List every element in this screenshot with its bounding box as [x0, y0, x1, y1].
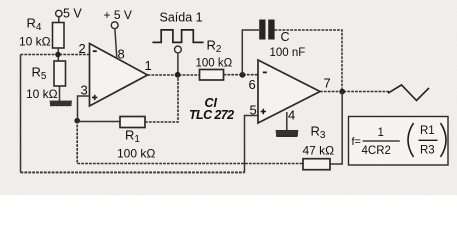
svg-text:100 nF: 100 nF — [270, 47, 306, 59]
square wave symbol — [152, 30, 203, 43]
node: output/C/R3 junction — [339, 89, 345, 95]
wire: 5V to R4 — [58, 17, 60, 23]
wire: U1a output — [148, 74, 200, 76]
wire: +5V to pin 8 — [115, 29, 117, 58]
wire: Saida terminal drop — [177, 53, 179, 72]
wire: C to output riser — [275, 30, 342, 92]
svg-text:R1: R1 — [420, 125, 435, 137]
svg-text:f=: f= — [352, 136, 361, 148]
wire: pin 3 lead — [78, 96, 90, 121]
wire: pin 4 down — [286, 112, 288, 131]
plus sign U1b — [261, 109, 266, 114]
wire: U1b output to triangle symbol — [320, 91, 390, 93]
svg-text:4CR2: 4CR2 — [362, 145, 391, 157]
resistor R3 — [303, 159, 330, 170]
wire: left rail vertical — [20, 55, 22, 173]
svg-text:+ 5 V: + 5 V — [104, 8, 132, 22]
wire: bottom rail to pin 5 — [21, 171, 245, 173]
wire: R4 to node — [57, 48, 59, 61]
formula box — [349, 117, 449, 166]
wire: R5 to ground — [59, 86, 61, 101]
capacitor C feedback: left riser — [242, 30, 259, 75]
capacitor C plates — [259, 20, 265, 40]
svg-text:1: 1 — [145, 58, 152, 73]
wire: R1 to output vertical — [145, 75, 178, 122]
wire: node to R1 — [77, 121, 120, 123]
wire: R2 to pin 6 — [224, 74, 259, 76]
ground (below R5) — [50, 101, 73, 107]
op-amp U1b — [258, 60, 320, 123]
svg-text:2: 2 — [79, 41, 86, 56]
node: pin6 junction — [240, 72, 246, 78]
svg-text:8: 8 — [118, 47, 125, 62]
svg-text:10 kΩ: 10 kΩ — [26, 87, 58, 101]
node: R4/R5 junction — [55, 52, 61, 58]
plus sign U1a — [92, 95, 97, 100]
terminal 5V left — [56, 10, 62, 16]
svg-text:100 kΩ: 100 kΩ — [117, 147, 155, 161]
svg-text:7: 7 — [324, 76, 331, 91]
svg-text:47 kΩ: 47 kΩ — [303, 144, 335, 158]
svg-text:6: 6 — [249, 77, 256, 92]
wire: pin 5 lead — [245, 116, 259, 173]
minus sign U1b — [263, 71, 267, 73]
ground (pin 4) — [276, 130, 299, 136]
wire: output down to R3 — [330, 92, 342, 165]
resistor R5 — [54, 61, 66, 86]
svg-text:R3: R3 — [420, 145, 435, 157]
formula right paren — [441, 123, 447, 157]
svg-text:1: 1 — [378, 127, 384, 139]
node: output junction — [175, 72, 181, 78]
wire: junction down to R3 rail — [77, 121, 303, 164]
terminal +5V — [111, 22, 118, 29]
svg-text:TLC 272: TLC 272 — [189, 108, 234, 122]
resistor R1 — [120, 117, 145, 128]
svg-text:5 V: 5 V — [63, 6, 82, 20]
wire: Vref horizontal rail (pin2 node) — [21, 54, 90, 56]
op-amp U1a — [90, 44, 148, 107]
triangle wave symbol — [388, 85, 429, 101]
minus sign U1a — [93, 50, 97, 52]
svg-text:4: 4 — [288, 108, 295, 123]
resistor R2 — [200, 70, 224, 81]
formula fraction bar — [363, 140, 400, 142]
svg-text:Saída 1: Saída 1 — [160, 11, 203, 25]
terminal Saida 1 — [175, 46, 182, 53]
formula left paren — [408, 123, 414, 157]
resistor R4 — [53, 23, 65, 49]
node: pin3/R1/R3 junction — [74, 118, 80, 124]
svg-text:C: C — [281, 30, 290, 44]
svg-text:10 kΩ: 10 kΩ — [19, 35, 51, 49]
formula R1/R3 bar — [419, 139, 438, 141]
svg-text:100 kΩ: 100 kΩ — [196, 58, 233, 70]
